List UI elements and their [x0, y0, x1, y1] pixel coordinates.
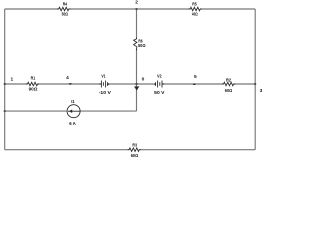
svg-text:0: 0 — [142, 77, 145, 83]
svg-text:90Ω: 90Ω — [29, 86, 38, 92]
svg-text:60Ω: 60Ω — [131, 153, 139, 159]
svg-text:V1: V1 — [101, 74, 105, 80]
svg-text:-10 V: -10 V — [99, 90, 112, 96]
svg-text:V2: V2 — [157, 74, 162, 80]
svg-text:R3: R3 — [132, 142, 137, 148]
svg-text:1: 1 — [10, 76, 13, 82]
svg-text:50 V: 50 V — [154, 90, 165, 96]
svg-text:R2: R2 — [226, 78, 231, 84]
svg-text:2: 2 — [135, 0, 138, 6]
svg-text:60Ω: 60Ω — [225, 88, 233, 94]
svg-text:3: 3 — [260, 88, 263, 94]
svg-text:50Ω: 50Ω — [138, 43, 146, 49]
svg-text:50Ω: 50Ω — [62, 12, 69, 18]
svg-text:R1: R1 — [31, 76, 36, 82]
svg-text:R4: R4 — [63, 2, 68, 8]
svg-text:5: 5 — [194, 74, 197, 80]
svg-text:R5: R5 — [192, 2, 197, 8]
svg-text:40Ω: 40Ω — [192, 12, 198, 18]
svg-text:4: 4 — [66, 75, 69, 81]
svg-text:6 A: 6 A — [69, 121, 76, 127]
svg-text:I1: I1 — [71, 99, 75, 105]
